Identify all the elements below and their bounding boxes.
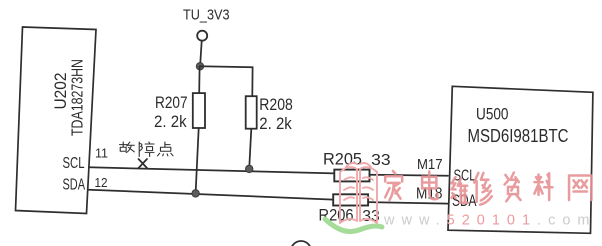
svg-text:33: 33 (371, 152, 391, 169)
resistor R208 label (259, 96, 293, 114)
svg-text:2. 2k: 2. 2k (154, 112, 187, 131)
glyph 故 (120, 142, 135, 153)
IC U500 part number MSD6I981BTC (468, 126, 569, 146)
svg-text:SDA: SDA (63, 177, 86, 194)
junction on SDA net (R207) (192, 190, 199, 197)
IC U202 box (16, 27, 97, 214)
svg-text:R206: R206 (319, 206, 354, 224)
wire: TU_3V3 terminal to junction (200, 41, 201, 63)
IC U202 refdes label (vertical) (51, 73, 70, 110)
resistor R207 label (155, 93, 188, 112)
pin number 12 (95, 175, 108, 190)
glyph 网 (569, 175, 591, 200)
resistor R205 value 33 (371, 152, 391, 169)
pin name SDA of U202 (63, 177, 86, 194)
svg-text:U500: U500 (476, 105, 509, 123)
junction node under power terminal (196, 63, 203, 70)
svg-text:R207: R207 (155, 93, 188, 112)
svg-text:SCL: SCL (63, 155, 85, 172)
svg-text:12: 12 (95, 175, 108, 190)
glyph 料 (534, 173, 552, 200)
watermark book logo (340, 163, 377, 223)
glyph 障 (139, 142, 154, 157)
glyph 点 (158, 142, 174, 156)
svg-text:TDA18273HN: TDA18273HN (70, 59, 87, 136)
glyph 电 (422, 172, 437, 200)
resistor R205 label (323, 151, 362, 169)
glyph 资 (505, 173, 521, 202)
glyph 维 (452, 177, 468, 203)
fault point label 故障点 (hand-drawn glyphs) (120, 142, 174, 157)
resistor R208 body (246, 96, 257, 129)
watermark text 家电维修资料网 (hand-drawn glyphs) (385, 171, 591, 205)
pin number 11 (95, 145, 108, 160)
pin name SCL of U202 (63, 155, 85, 172)
wire: R208 bottom down to SCL net (249, 129, 251, 169)
IC U500 box (448, 86, 593, 233)
watermark url www.520101.com (383, 213, 596, 229)
power terminal circle TU_3V3 (197, 31, 207, 41)
svg-text:R205: R205 (323, 151, 362, 169)
junction on SCL net (R208) (246, 165, 253, 172)
partial circle mark at bottom center (291, 241, 312, 246)
svg-text:MSD6I981BTC: MSD6I981BTC (468, 126, 569, 146)
svg-text:R208: R208 (259, 96, 293, 114)
IC U500 refdes label (476, 105, 509, 123)
svg-text:11: 11 (95, 145, 108, 160)
resistor R206 value 33 (362, 208, 380, 225)
svg-text:SCL: SCL (454, 167, 476, 184)
wire SCL net, left segment (U202 pin 11 to R205) (89, 167, 334, 173)
svg-text:2. 2k: 2. 2k (259, 114, 292, 133)
svg-text:www.520101.com: www.520101.com (383, 213, 596, 229)
wire: junction to R208 top (200, 66, 253, 96)
resistor R205 body (series, on SCL) (334, 170, 369, 182)
svg-text:U202: U202 (51, 73, 70, 110)
pin name SDA of U500 (452, 192, 477, 210)
glyph 修 (474, 173, 492, 205)
resistor R207 body (193, 93, 205, 128)
fault marker X on SCL wire (139, 159, 148, 168)
resistor R206 label (319, 206, 354, 224)
resistor R206 body (series, on SDA) (333, 194, 368, 205)
wire: R207 bottom down to SDA net (196, 128, 199, 193)
pin name M18 of U500 (416, 186, 443, 203)
net label TU_3V3 (183, 7, 230, 23)
wire SDA net, left segment (U202 pin 12 to R206) (89, 190, 333, 200)
wire: junction to R207 top (198, 66, 200, 93)
IC U202 part number TDA18273HN (vertical) (70, 59, 87, 136)
watermark logo green base (325, 219, 382, 232)
resistor R208 value 2.2k (259, 114, 292, 133)
pin name SCL of U500 (454, 167, 476, 184)
pin name M17 of U500 (417, 157, 443, 173)
svg-text:TU_3V3: TU_3V3 (183, 7, 230, 23)
wire SDA net, right segment (R206 to U500 pin M18) (368, 202, 448, 204)
glyph 家 (385, 171, 402, 200)
wire SCL net, right segment (R205 to U500 pin M17) (370, 175, 449, 176)
resistor R207 value 2.2k (154, 112, 187, 131)
